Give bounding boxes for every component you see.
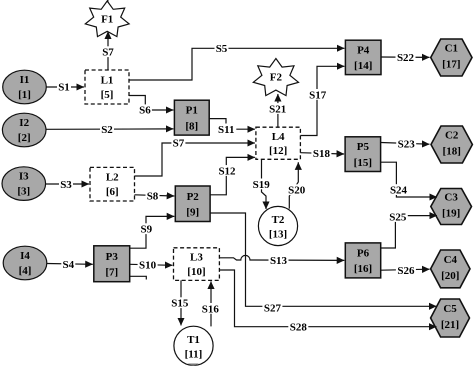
svg-text:F1: F1 bbox=[101, 14, 113, 26]
svg-text:S16: S16 bbox=[202, 303, 220, 315]
svg-text:S11: S11 bbox=[218, 124, 235, 136]
svg-text:S2: S2 bbox=[101, 124, 113, 136]
svg-text:[13]: [13] bbox=[269, 229, 287, 241]
svg-text:S1: S1 bbox=[58, 81, 70, 93]
svg-text:S25: S25 bbox=[389, 211, 407, 223]
svg-text:S9: S9 bbox=[140, 224, 152, 236]
svg-text:P3: P3 bbox=[106, 251, 119, 263]
svg-text:[10]: [10] bbox=[187, 266, 205, 278]
svg-text:[14]: [14] bbox=[354, 60, 372, 72]
svg-text:S7: S7 bbox=[102, 47, 114, 59]
svg-text:S4: S4 bbox=[62, 259, 74, 271]
svg-text:S7: S7 bbox=[173, 138, 185, 150]
svg-text:S27: S27 bbox=[264, 303, 282, 315]
svg-text:[8]: [8] bbox=[185, 120, 198, 132]
svg-text:[9]: [9] bbox=[186, 207, 199, 219]
svg-text:P6: P6 bbox=[357, 247, 370, 259]
svg-text:[15]: [15] bbox=[354, 157, 372, 169]
svg-text:S20: S20 bbox=[288, 185, 306, 197]
svg-text:S3: S3 bbox=[60, 179, 72, 191]
svg-text:[6]: [6] bbox=[106, 186, 119, 198]
svg-text:L3: L3 bbox=[190, 252, 203, 264]
svg-text:T2: T2 bbox=[272, 214, 285, 226]
svg-text:[19]: [19] bbox=[442, 208, 460, 220]
svg-text:S26: S26 bbox=[397, 265, 415, 277]
svg-text:P5: P5 bbox=[357, 141, 370, 153]
svg-text:C2: C2 bbox=[445, 130, 459, 142]
svg-text:C4: C4 bbox=[444, 254, 458, 266]
svg-text:L1: L1 bbox=[101, 75, 114, 87]
svg-text:S21: S21 bbox=[269, 103, 286, 115]
svg-text:[12]: [12] bbox=[269, 145, 287, 157]
svg-text:[11]: [11] bbox=[185, 348, 203, 360]
svg-text:T1: T1 bbox=[187, 334, 200, 346]
svg-text:S8: S8 bbox=[147, 191, 159, 203]
svg-text:I1: I1 bbox=[20, 74, 30, 86]
svg-text:S15: S15 bbox=[171, 298, 189, 310]
svg-text:P2: P2 bbox=[187, 191, 200, 203]
svg-text:[21]: [21] bbox=[441, 319, 459, 331]
svg-text:S19: S19 bbox=[253, 179, 271, 191]
svg-text:P4: P4 bbox=[357, 44, 370, 56]
svg-text:I3: I3 bbox=[19, 171, 29, 183]
svg-text:S28: S28 bbox=[290, 321, 308, 333]
svg-text:I4: I4 bbox=[20, 250, 30, 262]
svg-text:[20]: [20] bbox=[441, 270, 459, 282]
svg-text:[7]: [7] bbox=[105, 267, 118, 279]
svg-text:[18]: [18] bbox=[443, 146, 461, 158]
svg-text:S12: S12 bbox=[218, 165, 236, 177]
svg-text:S6: S6 bbox=[139, 105, 151, 117]
svg-text:L4: L4 bbox=[272, 131, 285, 143]
svg-text:P1: P1 bbox=[186, 105, 198, 117]
svg-text:[2]: [2] bbox=[18, 132, 31, 144]
svg-text:L2: L2 bbox=[106, 172, 119, 184]
svg-text:I2: I2 bbox=[19, 117, 29, 129]
svg-text:S18: S18 bbox=[313, 148, 331, 160]
svg-text:[16]: [16] bbox=[354, 263, 372, 275]
svg-text:S10: S10 bbox=[139, 259, 157, 271]
svg-text:[4]: [4] bbox=[19, 265, 32, 277]
svg-text:S17: S17 bbox=[309, 89, 327, 101]
svg-text:[17]: [17] bbox=[442, 59, 460, 71]
svg-text:S22: S22 bbox=[397, 52, 415, 64]
svg-text:[5]: [5] bbox=[101, 89, 114, 101]
svg-text:F2: F2 bbox=[270, 72, 283, 84]
svg-text:C3: C3 bbox=[444, 192, 458, 204]
svg-text:C5: C5 bbox=[443, 303, 457, 315]
svg-text:[3]: [3] bbox=[17, 185, 30, 197]
svg-text:C1: C1 bbox=[445, 43, 458, 55]
svg-text:S23: S23 bbox=[398, 139, 416, 151]
svg-text:S13: S13 bbox=[270, 255, 288, 267]
svg-text:S5: S5 bbox=[216, 43, 228, 55]
svg-text:S24: S24 bbox=[390, 185, 408, 197]
svg-text:[1]: [1] bbox=[18, 89, 31, 101]
